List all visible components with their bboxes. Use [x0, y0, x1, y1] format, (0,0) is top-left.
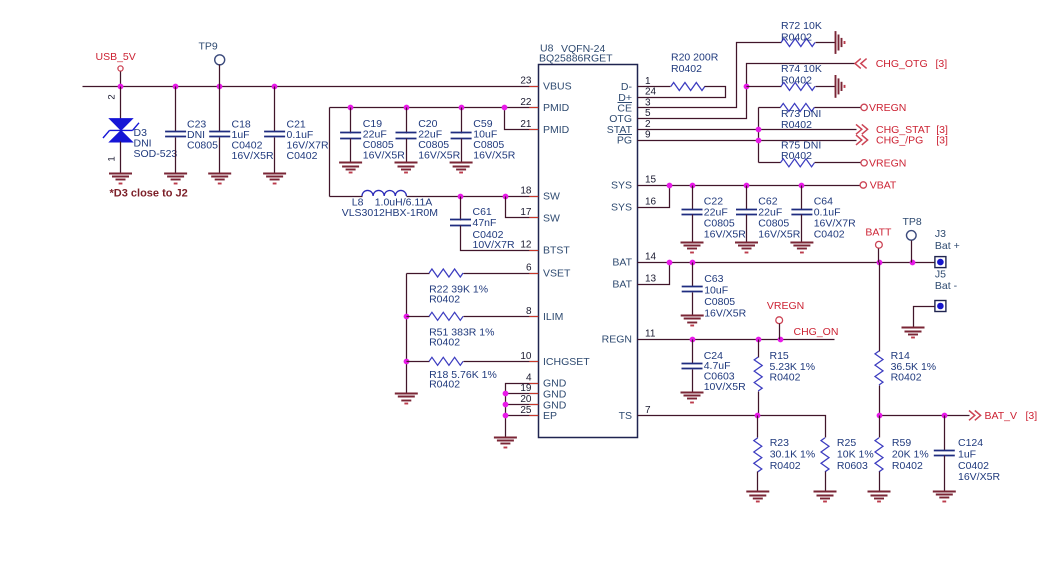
svg-text:10V/X5R: 10V/X5R: [704, 381, 746, 393]
svg-text:16V/X5R: 16V/X5R: [473, 150, 515, 162]
svg-text:1uF: 1uF: [958, 448, 976, 460]
svg-text:R0402: R0402: [671, 63, 702, 75]
junction: [118, 84, 124, 90]
svg-text:22: 22: [520, 97, 532, 108]
svg-text:J5: J5: [935, 269, 946, 281]
svg-text:[3]: [3]: [1026, 410, 1038, 422]
svg-text:30.1K 1%: 30.1K 1%: [770, 448, 816, 460]
ground: [681, 242, 704, 244]
resistor R51: [407, 316, 430, 318]
junction: [459, 105, 465, 111]
svg-text:24: 24: [645, 87, 657, 98]
ground: [814, 491, 837, 493]
svg-text:3: 3: [645, 97, 651, 108]
svg-text:16V/X5R: 16V/X5R: [958, 471, 1000, 483]
ground: [164, 173, 187, 175]
svg-text:16V/X5R: 16V/X5R: [704, 229, 746, 241]
junction: [272, 84, 278, 90]
U8 pin 6 VSET: [529, 273, 538, 275]
svg-text:C0805: C0805: [704, 296, 735, 308]
wire VBAT: [638, 185, 861, 187]
ground: [933, 491, 956, 493]
junction: [690, 260, 696, 266]
svg-text:R0402: R0402: [781, 31, 812, 43]
svg-text:R25: R25: [837, 437, 856, 449]
svg-text:17: 17: [520, 207, 532, 218]
resistor R18: [407, 361, 430, 363]
junction: [744, 183, 750, 189]
svg-text:[3]: [3]: [936, 58, 948, 70]
svg-text:EP: EP: [543, 410, 557, 422]
U8 pin 21 PMID: [529, 129, 538, 131]
svg-text:16V/X5R: 16V/X5R: [363, 150, 405, 162]
resistor R25: [821, 438, 829, 472]
svg-text:23: 23: [520, 76, 532, 87]
inductor L8: [362, 190, 406, 196]
svg-text:VBAT: VBAT: [870, 180, 897, 192]
capacitor C18: [219, 87, 221, 132]
junction: [404, 105, 410, 111]
net BAT_V: [969, 411, 981, 421]
junction: [348, 105, 354, 111]
svg-text:16V/X5R: 16V/X5R: [704, 307, 746, 319]
capacitor C59: [461, 108, 463, 134]
svg-text:16: 16: [645, 197, 657, 208]
capacitor C23: [175, 87, 177, 132]
svg-text:SYS: SYS: [611, 180, 632, 192]
junction: [744, 84, 750, 90]
wire SW: [407, 196, 539, 198]
capacitor C22: [692, 186, 694, 210]
wire: [758, 108, 760, 163]
svg-text:R0402: R0402: [781, 75, 812, 87]
wire: [506, 393, 539, 395]
resistor R73: [759, 107, 781, 109]
svg-text:2: 2: [645, 119, 651, 130]
junction: [503, 194, 509, 200]
junction: [503, 413, 509, 419]
svg-text:6: 6: [526, 263, 532, 274]
svg-text:TS: TS: [619, 410, 632, 422]
junction: [502, 105, 508, 111]
svg-text:PG: PG: [617, 135, 632, 147]
capacitor C63: [692, 263, 694, 287]
svg-text:R0402: R0402: [770, 371, 801, 383]
ground: [208, 173, 231, 175]
wire: [406, 274, 408, 394]
U8 pin 17 SW: [529, 217, 538, 219]
svg-text:10: 10: [520, 351, 532, 362]
net VREGN: [861, 160, 867, 166]
svg-text:16V/X5R: 16V/X5R: [418, 150, 460, 162]
capacitor C64: [801, 186, 803, 210]
svg-text:SOD-523: SOD-523: [134, 148, 178, 160]
resistor R72: [781, 39, 815, 47]
junction: [667, 183, 673, 189]
capacitor C124: [944, 416, 946, 451]
wire: [638, 43, 782, 108]
svg-text:VREGN: VREGN: [869, 102, 906, 114]
U8 pin 24 D+: [638, 97, 647, 99]
svg-text:2: 2: [107, 94, 118, 99]
svg-text:16V/X5R: 16V/X5R: [232, 150, 274, 162]
svg-text:R0402: R0402: [429, 379, 460, 391]
wire: [330, 196, 363, 198]
svg-text:CHG_/PG: CHG_/PG: [876, 135, 923, 147]
wire: [506, 404, 539, 406]
junction: [756, 138, 762, 144]
svg-text:VREGN: VREGN: [869, 157, 906, 169]
junction: [877, 413, 883, 419]
svg-text:J3: J3: [935, 228, 946, 240]
junction: [756, 127, 762, 133]
svg-text:R0402: R0402: [781, 150, 812, 162]
svg-text:R0402: R0402: [770, 460, 801, 472]
svg-text:R0402: R0402: [892, 460, 923, 472]
junction: [756, 337, 762, 343]
wire BAT_V: [880, 415, 970, 417]
wire: [120, 87, 122, 120]
resistor R75: [759, 162, 781, 164]
svg-text:CHG_OTG: CHG_OTG: [876, 58, 928, 70]
ground: [835, 75, 837, 98]
svg-text:10V/X7R: 10V/X7R: [473, 239, 515, 251]
capacitor C20: [406, 108, 408, 134]
junction: [942, 413, 948, 419]
svg-text:USB_5V: USB_5V: [96, 51, 136, 63]
junction: [173, 84, 179, 90]
resistor R74: [747, 86, 782, 88]
ground: [339, 162, 362, 164]
wire REGN: [638, 339, 835, 341]
junction: [799, 183, 805, 189]
svg-text:R59: R59: [892, 437, 911, 449]
junction: [877, 260, 883, 266]
U8 pin 22 PMID: [529, 107, 538, 109]
wire: [506, 384, 539, 438]
svg-text:11: 11: [645, 329, 656, 340]
wire: [638, 64, 856, 119]
svg-text:*D3 close to J2: *D3 close to J2: [110, 188, 188, 200]
svg-text:R0402: R0402: [891, 371, 922, 383]
svg-text:9: 9: [645, 130, 651, 141]
svg-text:REGN: REGN: [602, 334, 632, 346]
junction: [755, 413, 761, 419]
wire CHG_/PG: [638, 140, 857, 142]
junction: [458, 194, 464, 200]
svg-text:8: 8: [526, 306, 532, 317]
U8 pin 8 ILIM: [529, 316, 538, 318]
U8 pin 4 GND: [529, 383, 538, 385]
svg-text:VBUS: VBUS: [543, 81, 572, 93]
wire: [506, 197, 539, 218]
svg-text:12: 12: [520, 240, 532, 251]
ground: [790, 242, 813, 244]
net CHG_OTG: [855, 59, 867, 69]
U8 pin 18 SW: [529, 196, 538, 198]
ground: [746, 491, 769, 493]
svg-text:10uF: 10uF: [704, 285, 728, 297]
U8 pin 23 VBUS: [529, 86, 538, 88]
svg-text:C0402: C0402: [287, 150, 318, 162]
svg-text:VLS3012HBX-1R0M: VLS3012HBX-1R0M: [342, 207, 438, 219]
svg-text:[3]: [3]: [936, 135, 948, 147]
U8 pin 13 BAT: [638, 284, 647, 286]
capacitor C21: [274, 87, 276, 132]
ground: [450, 162, 473, 164]
ground: [395, 393, 418, 395]
U8 pin 10 ICHGSET: [529, 361, 538, 363]
U8 pin 11 REGN: [638, 339, 647, 341]
wire: [506, 415, 539, 417]
svg-text:C0402: C0402: [958, 460, 989, 472]
resistor R23: [757, 416, 759, 438]
ground: [395, 162, 418, 164]
wire CHG_STAT: [638, 129, 857, 131]
U8 pin 25 EP: [529, 415, 538, 417]
svg-text:1: 1: [107, 156, 118, 161]
svg-text:19: 19: [520, 383, 532, 394]
net VBAT: [860, 182, 866, 188]
svg-text:5: 5: [645, 108, 651, 119]
svg-text:20: 20: [520, 394, 532, 405]
wire: [120, 142, 122, 174]
svg-text:R20 200R: R20 200R: [671, 52, 719, 64]
ground: [681, 392, 704, 394]
svg-text:VSET: VSET: [543, 268, 571, 280]
U8 pin 3 CE: [638, 107, 647, 109]
svg-text:CHG_ON: CHG_ON: [794, 326, 839, 338]
junction: [690, 337, 696, 343]
svg-text:C61: C61: [473, 206, 492, 218]
svg-text:C0805: C0805: [187, 140, 218, 152]
resistor R15: [758, 340, 760, 358]
junction: [667, 260, 673, 266]
svg-text:Bat +: Bat +: [935, 240, 960, 252]
svg-text:16V/X5R: 16V/X5R: [758, 229, 800, 241]
junction: [503, 402, 509, 408]
svg-text:BAT: BAT: [612, 257, 632, 269]
U8 pin 7 TS: [638, 415, 647, 417]
svg-text:4: 4: [526, 373, 532, 384]
svg-text:SW: SW: [543, 212, 560, 224]
U8 pin 15 SYS: [638, 185, 647, 187]
wire: [505, 108, 539, 130]
svg-text:47nF: 47nF: [473, 217, 497, 229]
svg-text:VREGN: VREGN: [767, 300, 804, 312]
svg-text:BATT: BATT: [865, 227, 892, 239]
junction: [690, 183, 696, 189]
svg-text:21: 21: [520, 119, 532, 130]
svg-text:7: 7: [645, 405, 651, 416]
U8 pin 16 SYS: [638, 207, 647, 209]
ground: [835, 31, 837, 54]
wire: [638, 186, 670, 208]
svg-text:TP9: TP9: [199, 41, 218, 53]
U8 pin 12 BTST: [529, 250, 538, 252]
wire: [638, 263, 670, 285]
U8 pin 20 GND: [529, 404, 538, 406]
U8 pin 2 STAT: [638, 129, 647, 131]
diode D3 (TVS): [110, 119, 133, 131]
net VREGN: [861, 104, 867, 110]
svg-text:R72 10K: R72 10K: [781, 20, 822, 32]
svg-text:25: 25: [520, 405, 532, 416]
ground: [109, 173, 132, 175]
ground: [263, 173, 286, 175]
resistor R20: [638, 86, 671, 88]
svg-text:20K 1%: 20K 1%: [892, 448, 929, 460]
svg-text:14: 14: [645, 252, 657, 263]
U8 pin 5 OTG: [638, 118, 647, 120]
junction: [778, 337, 784, 343]
U8 pin 14 BAT: [638, 262, 647, 264]
svg-text:C0402: C0402: [814, 229, 845, 241]
svg-text:ILIM: ILIM: [543, 311, 563, 323]
svg-text:BAT_V: BAT_V: [985, 410, 1017, 422]
wire VBUS bus: [83, 86, 539, 88]
svg-text:R0402: R0402: [429, 293, 460, 305]
junction: [217, 84, 223, 90]
svg-text:PMID: PMID: [543, 102, 570, 114]
svg-text:BAT: BAT: [612, 279, 632, 291]
wire BAT: [638, 262, 935, 264]
U8 pin 9 PG: [638, 140, 647, 142]
svg-text:10K 1%: 10K 1%: [837, 448, 874, 460]
wire PMID rail: [330, 107, 539, 109]
wire TS: [638, 416, 826, 438]
svg-text:ICHGSET: ICHGSET: [543, 356, 590, 368]
svg-text:15: 15: [645, 175, 657, 186]
resistor R59: [879, 416, 881, 438]
ground: [868, 491, 891, 493]
svg-text:18: 18: [520, 186, 532, 197]
svg-text:C124: C124: [958, 437, 983, 449]
junction: [910, 260, 916, 266]
net CHG_/PG: [856, 135, 868, 145]
svg-text:R74 10K: R74 10K: [781, 63, 822, 75]
resistor R14: [879, 263, 881, 352]
U8 pin 19 GND: [529, 393, 538, 395]
svg-text:SW: SW: [543, 191, 560, 203]
junction: [404, 314, 410, 320]
junction: [404, 359, 410, 365]
svg-text:1: 1: [645, 76, 651, 87]
ground: [494, 437, 517, 439]
U8 pin 1 D-: [638, 86, 647, 88]
net CHG_STAT: [856, 124, 868, 134]
svg-text:R0603: R0603: [837, 460, 868, 472]
svg-text:TP8: TP8: [903, 216, 922, 228]
svg-text:BQ25886RGET: BQ25886RGET: [539, 53, 613, 65]
svg-text:C63: C63: [704, 273, 723, 285]
ground: [681, 315, 704, 317]
capacitor C61: [460, 197, 462, 221]
svg-text:R23: R23: [770, 437, 789, 449]
svg-text:Bat -: Bat -: [935, 280, 958, 292]
svg-text:BTST: BTST: [543, 245, 570, 257]
resistor R22: [407, 273, 430, 275]
svg-text:R0402: R0402: [429, 336, 460, 348]
capacitor C62: [746, 186, 748, 210]
svg-text:PMID: PMID: [543, 124, 570, 136]
ground: [735, 242, 758, 244]
capacitor C19: [350, 108, 352, 134]
wire: [914, 307, 935, 328]
wire: [329, 108, 331, 197]
ground: [902, 327, 925, 329]
svg-text:SYS: SYS: [611, 202, 632, 214]
op-amp U8 (IC BQ25886RGET): [539, 65, 638, 438]
capacitor C24: [692, 340, 694, 364]
junction: [503, 391, 509, 397]
svg-text:13: 13: [645, 274, 657, 285]
